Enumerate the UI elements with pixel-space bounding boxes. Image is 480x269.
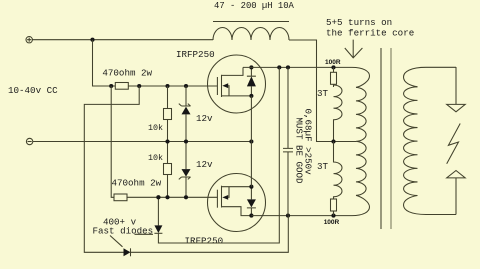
Q1 body diode [247,67,256,96]
Q2 body diode [247,187,256,216]
pointer line to vertical diode [135,233,154,235]
inductor core bar [213,21,289,23]
spark gap upper electrode [455,67,457,104]
zener D2 12v (lower) [185,142,187,198]
Q2 drain tap to bottom rail [222,207,252,216]
wire source midpoint vertical [250,96,252,187]
svg-text:MUST BE GOOD: MUST BE GOOD [294,117,305,184]
svg-text:10k: 10k [148,123,163,133]
inductor L1 47-200uH choke [213,27,289,40]
svg-text:10k: 10k [148,153,163,163]
junction mid rail / MOSFET sources [249,139,253,143]
Q2 channel [221,186,223,208]
junction lower gate / zener [184,195,188,199]
diode D4 fast (vertical, lower gate to Q1 drain) [156,195,160,199]
wire bottom rail (drain Q2 to primary bottom) [251,195,369,215]
transformer T1 primary 5+5 turns [356,87,366,195]
wire lower gate rail [127,196,217,198]
junction Q2 source [249,185,253,189]
junction Q1 source [249,94,253,98]
junction top rail / 100R [331,65,335,69]
zener D1 12v (upper) [185,86,187,142]
junction top rail / capacitor [286,65,290,69]
svg-text:the ferrite core: the ferrite core [326,28,414,39]
svg-text:5+5 turns on: 5+5 turns on [326,17,392,28]
junction feedback center / primary tap [331,139,335,143]
junction Q1 drain [249,65,253,69]
spark (lightning bolt) [447,124,461,164]
svg-text:Fast diodes: Fast diodes [93,226,154,237]
junction supply to lower resistor feed [109,84,113,88]
svg-text:3T: 3T [317,161,329,172]
svg-text:470ohm 2w: 470ohm 2w [102,68,152,79]
arrow pointer to primary [345,40,363,58]
capacitor C1 0,68uF [283,67,293,215]
Q1 gate plate [216,77,218,95]
terminal - (negative input) [26,138,32,144]
svg-text:IRFP250: IRFP250 [176,49,215,60]
Q2 body arrow [222,195,228,200]
pointer line to bottom diode [110,236,123,247]
wire upper gate rail [128,85,217,87]
junction bottom rail / 100R [331,214,335,218]
junction lower gate / 10k [165,195,169,199]
resistor R1 470ohm 2w (upper) [115,83,128,90]
Q2 source tap [222,186,252,188]
junction upper gate to zener [184,84,188,88]
Q2 gate plate [216,190,218,208]
wire top rail (drain Q1 to primary top) [243,67,370,87]
diode D3 fast (bottom, anode to upper gate loop) [124,248,131,256]
feedback winding 3T (upper) [334,85,343,142]
op-amp: none; MOSFET Q1 IRFP250 (upper) [208,55,266,113]
svg-text:470ohm 2w: 470ohm 2w [112,178,162,189]
wire cross-coupling upper gate to bottom diode [84,86,139,252]
Q1 body arrow [222,83,228,88]
junction mid rail / zeners [184,139,188,143]
transformer secondary winding [404,67,457,87]
wire vertical feed to lower 470ohm [111,86,114,197]
junction Q2 drain [249,214,253,218]
Q1 drain tap to top rail [222,67,244,75]
wire negative rail (mid) [33,141,252,143]
resistor R6 100R (lower) [331,199,337,211]
wire top rail from + terminal to inductor [32,39,213,41]
junction bottom rail / capacitor [286,214,290,218]
svg-text:47 - 200 µH 10A: 47 - 200 µH 10A [214,1,295,11]
junction top rail / cross wire [277,65,281,69]
resistor R3 10k (upper) [167,86,169,142]
feedback winding 3T (lower) [334,142,343,200]
svg-text:IRFP250: IRFP250 [185,236,224,247]
junction upper gate to 10k [165,84,169,88]
resistor R4 10k (lower) [167,142,169,198]
junction mid rail / 10k [165,139,169,143]
resistor R5 100R (upper) [331,72,337,84]
svg-text:3T: 3T [317,88,329,99]
junction dot top wire at x=92.5 [90,38,94,42]
resistor R2 470ohm 2w (lower) [114,194,127,201]
junction upper gate to cross diode [137,84,141,88]
terminal + (positive input) [26,37,32,43]
MOSFET Q2 IRFP250 (lower, mirrored) [208,174,266,232]
transformer core lines [380,48,382,229]
junction lower gate / cross diode [156,195,160,199]
Q1 source tap [222,95,252,97]
svg-text:100R: 100R [324,219,340,226]
svg-text:10-40v CC: 10-40v CC [8,85,58,96]
wire inductor output down to primary center tap [289,40,356,142]
svg-text:12v: 12v [196,113,213,124]
svg-text:100R: 100R [325,59,341,66]
spark gap lower electrode [447,171,466,178]
svg-text:12v: 12v [196,159,213,170]
wire bottom cross wire to Q2 drain rail [131,216,289,253]
Q1 channel [221,75,223,97]
wire supply drop to gate resistor rail [93,40,116,86]
